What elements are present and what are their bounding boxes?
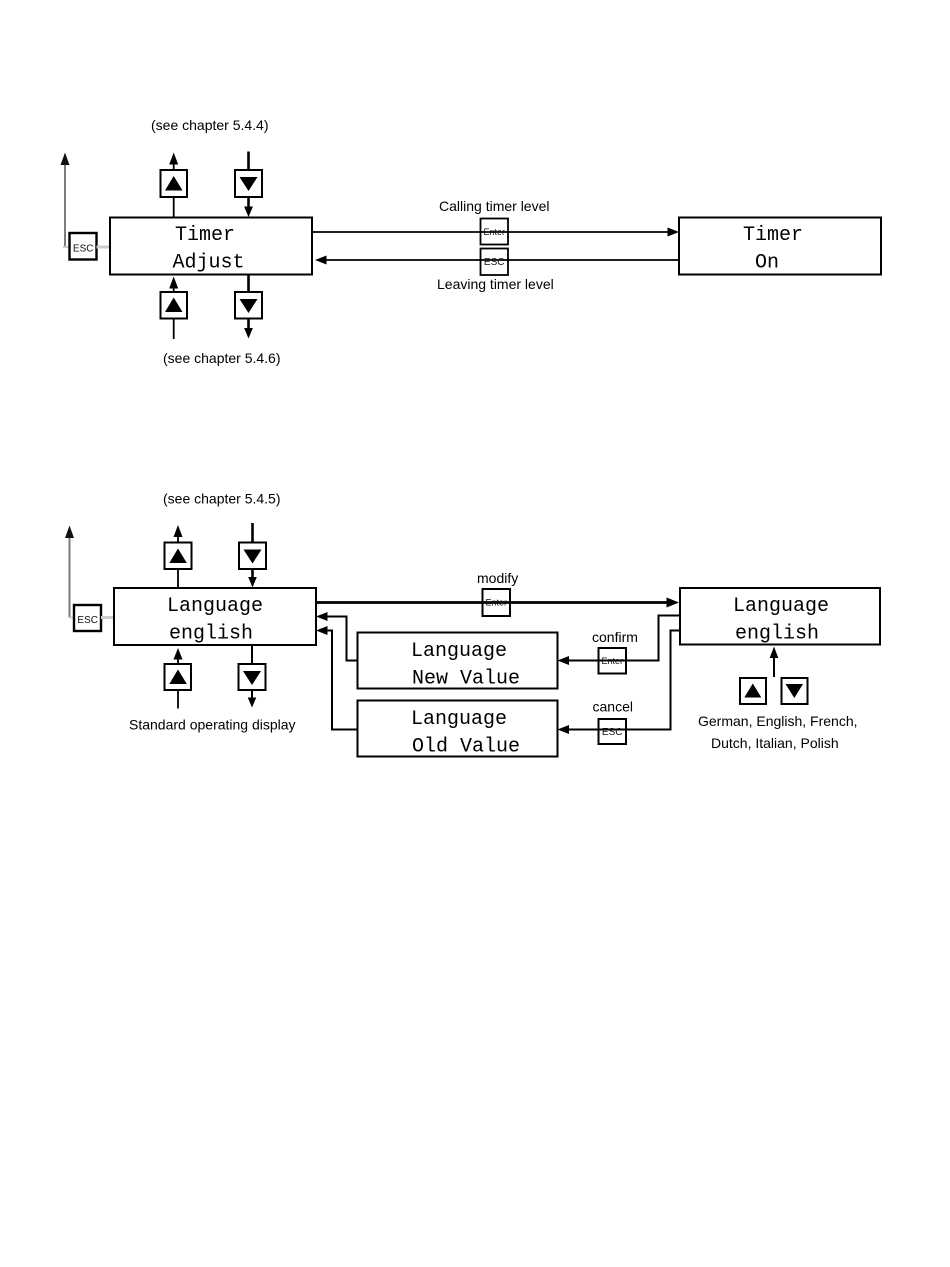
wire: leaving timer level arrow back to Timer box [315, 256, 679, 265]
display box: Timer On [679, 218, 881, 275]
svg-text:Language: Language [411, 708, 507, 731]
button ESC (bottom-left) [74, 605, 101, 631]
wire: arrow up from UP button toward chapter 5.4.5 [174, 525, 183, 543]
svg-text:english: english [735, 623, 819, 646]
button UP (below Timer box) [161, 292, 188, 319]
svg-text:(see chapter 5.4.4): (see chapter 5.4.4) [151, 117, 269, 133]
display box: Language Old Value [358, 701, 558, 759]
button UP (below right Language box) [740, 678, 766, 704]
wire: line from UP button down to Language box [177, 569, 179, 588]
button DOWN (below right Language box) [782, 678, 808, 704]
svg-text:On: On [755, 252, 779, 275]
svg-text:(see chapter 5.4.5): (see chapter 5.4.5) [163, 491, 281, 507]
svg-text:New Value: New Value [412, 668, 520, 691]
wire: confirm path from right Language box to Enter button [566, 616, 680, 661]
svg-text:Old Value: Old Value [412, 736, 520, 759]
svg-text:Leaving timer level: Leaving timer level [437, 276, 554, 292]
svg-text:confirm: confirm [592, 629, 638, 645]
button ESC (leaving timer level) [481, 249, 509, 276]
svg-text:German, English, French,: German, English, French, [698, 713, 858, 729]
button UP (above Language box) [165, 543, 192, 570]
svg-text:Timer: Timer [743, 224, 803, 247]
button ESC (top-left) [70, 233, 97, 260]
svg-text:english: english [169, 623, 253, 646]
wire: gray escape arrow up (bottom-left) [65, 526, 74, 618]
wire: line from Timer box into lower DOWN button [247, 275, 250, 293]
wire: line into DOWN button from above [251, 523, 254, 543]
button DOWN (above Language box) [239, 543, 266, 570]
wire: line below lower UP button [177, 690, 179, 709]
svg-text:(see chapter 5.4.6): (see chapter 5.4.6) [163, 350, 281, 366]
display box: Timer Adjust [110, 218, 312, 275]
wire: return path from Old Value box into left Language box [316, 626, 358, 730]
button DOWN (below Timer box) [235, 292, 262, 319]
wire: cancel arrow into Old Value box [558, 725, 570, 734]
svg-text:Calling timer level: Calling timer level [439, 198, 549, 214]
wire: return path from New Value box into left Language box [316, 612, 358, 661]
wire: cancel path from right Language box to ESC button [566, 631, 680, 730]
wire: confirm arrow into New Value box [558, 656, 570, 665]
svg-text:Timer: Timer [175, 224, 235, 247]
svg-text:ESC: ESC [602, 727, 623, 738]
wire: arrow up from lower UP button into Timer box [169, 277, 178, 293]
button DOWN (below left Language box) [239, 664, 266, 690]
wire: line into DOWN button from above [247, 152, 250, 171]
svg-text:Language: Language [733, 595, 829, 618]
wire: gray connector ESC to Language box [101, 616, 114, 619]
wire: arrow down below lower DOWN button [244, 319, 253, 339]
wire: line below lower UP button [173, 319, 175, 340]
wire: gray escape arrow up (top-left) [61, 153, 70, 248]
svg-text:Language: Language [411, 640, 507, 663]
wire: arrow down from DOWN button into Language box [248, 569, 257, 588]
button DOWN (above Timer box) [235, 170, 262, 197]
display box: Language english (left) [114, 588, 316, 646]
svg-text:modify: modify [477, 570, 518, 586]
wire: line from UP button down to Timer box [173, 197, 175, 218]
wire: gray connector ESC to Timer box [97, 246, 111, 249]
wire: arrow up from UP button toward chapter 5.4.4 [169, 153, 178, 171]
button UP (below left Language box) [165, 664, 192, 690]
wire: arrow down from DOWN button into Timer box [244, 197, 253, 217]
svg-text:Language: Language [167, 595, 263, 618]
wire: arrow up from lower UP button into left Language box [174, 648, 183, 664]
wire: calling timer level arrow to Timer On box [312, 228, 679, 237]
svg-text:ESC: ESC [484, 257, 505, 268]
display box: Language english (right) [680, 588, 880, 646]
svg-text:cancel: cancel [593, 699, 633, 715]
button Enter (calling timer level) [481, 219, 509, 245]
wire: modify arrow to right Language box [316, 598, 679, 608]
svg-text:ESC: ESC [73, 244, 94, 255]
svg-text:Enter: Enter [483, 227, 505, 237]
display box: Language New Value [358, 633, 558, 691]
svg-text:ESC: ESC [77, 615, 98, 626]
button ESC (cancel) [599, 719, 627, 744]
svg-text:Standard operating display: Standard operating display [129, 717, 296, 733]
wire: arrow down below lower DOWN button [248, 690, 257, 708]
wire: arrow up into right Language box bottom [770, 647, 779, 678]
button Enter (modify) [483, 589, 511, 616]
wire: line from left Language box into lower DOWN button [251, 645, 253, 664]
button UP (above Timer box) [161, 170, 188, 197]
svg-text:Adjust: Adjust [173, 252, 245, 275]
svg-text:Enter: Enter [601, 656, 623, 666]
button Enter (confirm) [599, 648, 627, 674]
svg-text:Enter: Enter [485, 598, 507, 608]
svg-text:Dutch, Italian, Polish: Dutch, Italian, Polish [711, 735, 839, 751]
